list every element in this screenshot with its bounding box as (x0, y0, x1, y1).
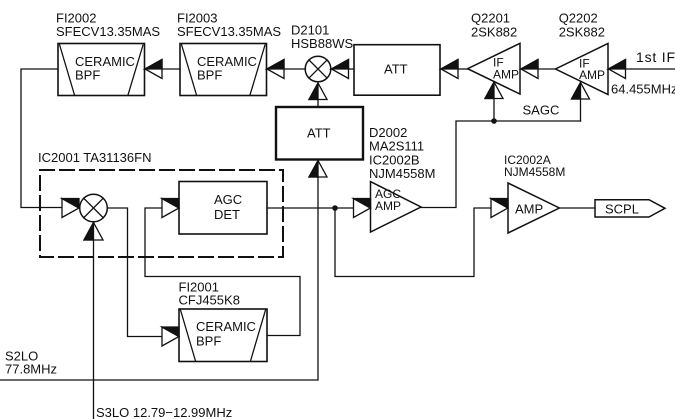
arrow up into mixer IC2001 bottom (84, 223, 103, 241)
amplifier Q2201 triangle (468, 43, 520, 94)
svg-text:AMP: AMP (515, 202, 543, 217)
wire (626, 68, 675, 70)
wire (267, 207, 353, 209)
svg-text:BPF: BPF (196, 334, 221, 349)
arrow into Q2201 (521, 60, 538, 79)
wire (538, 68, 556, 70)
svg-text:SFECV13.35MAS: SFECV13.35MAS (177, 24, 281, 39)
arrow up into Q2201 gate (485, 82, 503, 99)
svg-text:64.455MHz: 64.455MHz (611, 81, 675, 96)
svg-text:SAGC: SAGC (523, 103, 560, 118)
arrow up into mixer D2101 bottom (309, 83, 327, 100)
svg-text:BPF: BPF (197, 68, 222, 83)
svg-text:2SK882: 2SK882 (471, 24, 517, 39)
arrow into AGC DET (162, 199, 179, 218)
resonator FI2001 box (179, 309, 267, 362)
wire (0, 177, 318, 381)
wire (162, 68, 180, 70)
arrow up into ATT middle bottom (309, 161, 327, 178)
svg-text:HSB88WS: HSB88WS (291, 36, 353, 51)
wire (317, 100, 319, 108)
arrow into mixer IC2001 (62, 199, 79, 218)
junction node A (AGC DET out) (332, 205, 338, 211)
svg-text:SCPL: SCPL (605, 202, 639, 217)
arrow into AMP (491, 199, 508, 218)
svg-text:2SK882: 2SK882 (559, 24, 605, 39)
svg-text:NJM4558M: NJM4558M (369, 166, 435, 181)
resonator FI2003 box (180, 44, 267, 96)
arrow up into Q2202 gate (572, 83, 590, 100)
mixer IC2001 (80, 194, 108, 222)
svg-text:1st IF: 1st IF (636, 49, 675, 65)
amplifier Q2202 triangle (556, 44, 609, 95)
resonator FI2002 box (58, 44, 145, 96)
svg-text:CFJ455K8: CFJ455K8 (179, 293, 240, 308)
arrow into Q2202 (609, 60, 626, 79)
wire (458, 68, 468, 70)
wire (349, 68, 355, 70)
SCPL banner (595, 200, 665, 217)
arrow into FI2002 (145, 60, 162, 79)
wire (145, 208, 300, 336)
svg-text:77.8MHz: 77.8MHz (5, 362, 57, 377)
junction node B (SAGC) (491, 118, 497, 124)
arrow into FI2003 (267, 60, 284, 79)
amplifier AGC AMP triangle (371, 182, 422, 232)
svg-text:DET: DET (214, 207, 240, 222)
attenuator ATT middle box (276, 107, 363, 160)
svg-text:NJM4558M: NJM4558M (504, 165, 565, 179)
svg-text:S3LO 12.79−12.99MHz: S3LO 12.79−12.99MHz (96, 405, 232, 419)
IC2001 dashed box (40, 170, 283, 257)
wire (335, 208, 491, 277)
wire (284, 68, 306, 70)
wire (108, 208, 162, 337)
svg-text:ATT: ATT (384, 62, 408, 77)
svg-text:ATT: ATT (307, 126, 331, 141)
svg-text:AMP: AMP (375, 199, 401, 213)
wire SAGC (421, 121, 581, 208)
arrow into ATT top (441, 60, 458, 79)
wire (559, 207, 595, 209)
svg-text:CERAMIC: CERAMIC (196, 319, 256, 334)
svg-text:MA2S111: MA2S111 (369, 139, 424, 154)
svg-text:AMP: AMP (493, 68, 519, 82)
arrow into FI2001 (162, 327, 179, 346)
amplifier AMP triangle (508, 183, 559, 233)
attenuator ATT top box (354, 45, 440, 95)
wire (493, 99, 495, 122)
arrows: half-filled heads (62, 60, 626, 347)
arrow into AGC AMP (354, 199, 371, 218)
AGC DET box (179, 182, 267, 235)
wire S3LO (93, 241, 95, 419)
svg-text:BPF: BPF (75, 68, 100, 83)
svg-text:SFECV13.35MAS: SFECV13.35MAS (56, 24, 160, 39)
arrow into mixer D2101 (332, 60, 349, 79)
wire (580, 99, 582, 122)
svg-text:IC2001 TA31136FN: IC2001 TA31136FN (38, 150, 151, 165)
svg-text:AGC: AGC (214, 192, 242, 207)
wire (21, 69, 62, 208)
svg-text:AMP: AMP (579, 68, 605, 82)
mixer D2101 (305, 56, 331, 82)
